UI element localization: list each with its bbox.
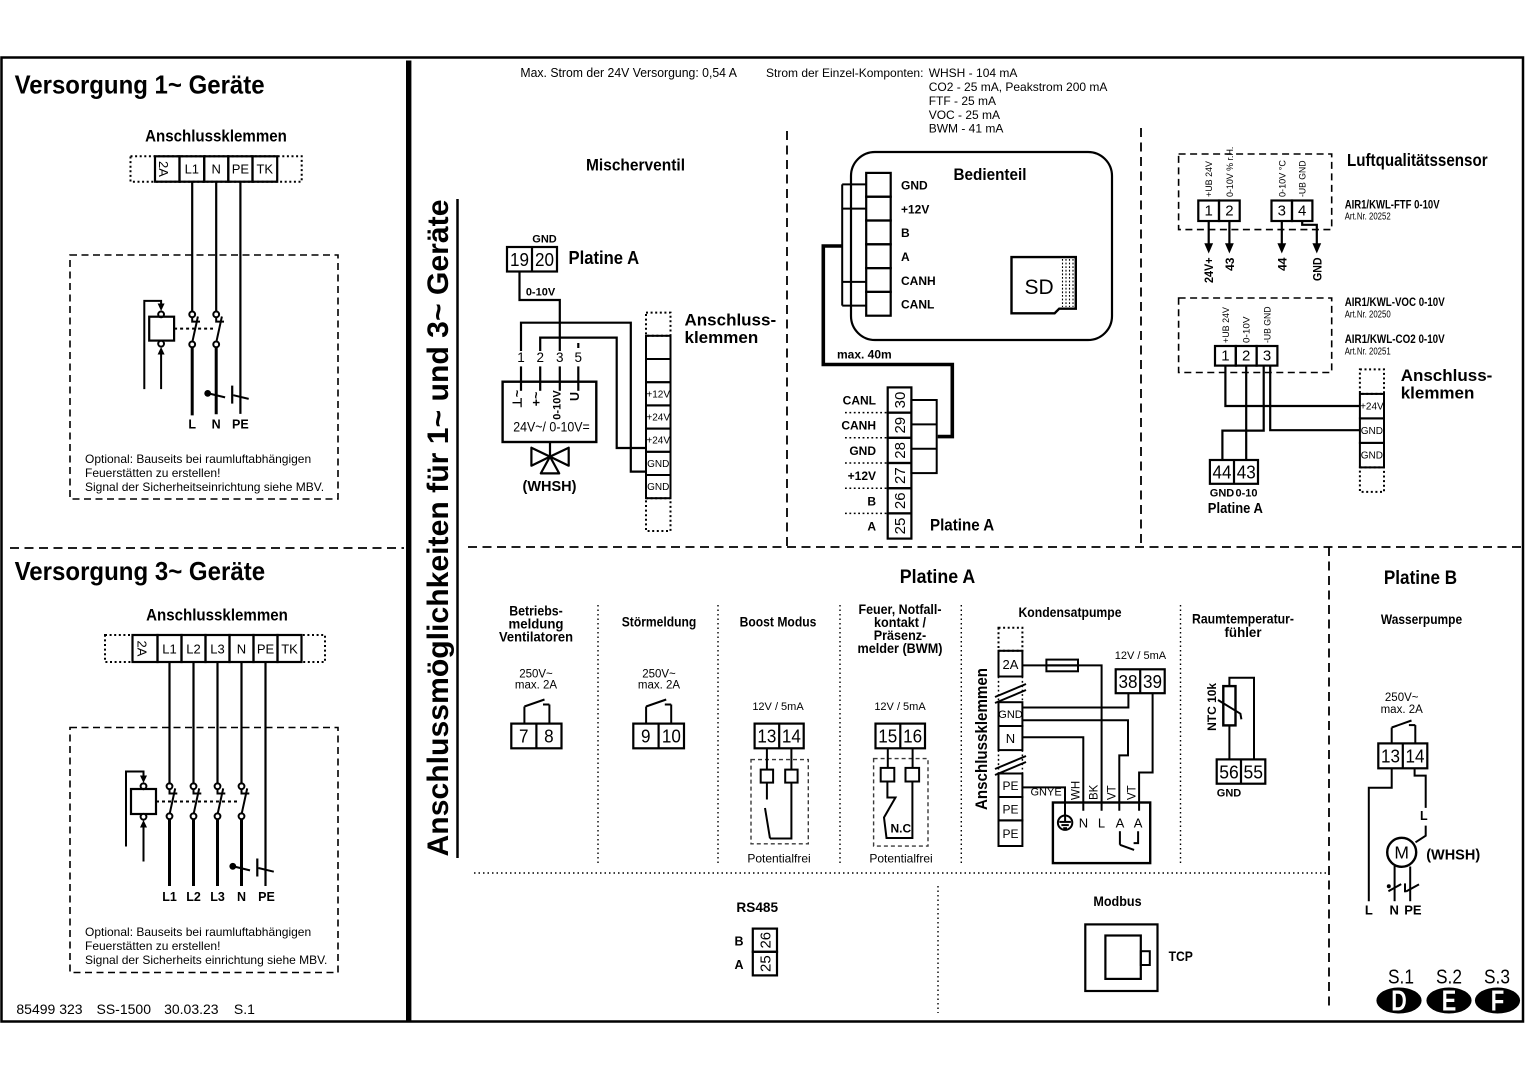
svg-text:L1: L1 — [162, 890, 177, 904]
terminal block 19/20 — [507, 247, 557, 272]
BWM dashed box — [874, 759, 928, 847]
coil bottom wire — [143, 827, 145, 862]
svg-text:A: A — [867, 520, 876, 534]
svg-text:30.03.23: 30.03.23 — [164, 1001, 219, 1017]
cell 2A — [999, 651, 1023, 677]
contactor coil — [131, 789, 156, 814]
cell +12V — [646, 382, 671, 405]
SD contact hatch — [1063, 259, 1074, 307]
svg-text:+UB 24V: +UB 24V — [1221, 306, 1232, 343]
terminals 26 25 — [753, 929, 777, 952]
svg-text:GND: GND — [998, 709, 1023, 721]
wire 38 to GND — [1022, 693, 1128, 707]
svg-text:PE: PE — [258, 890, 275, 904]
svg-text:2A: 2A — [135, 641, 150, 657]
svg-text:Luftqualitätssensor: Luftqualitätssensor — [1347, 150, 1488, 170]
rotated main title — [422, 199, 458, 858]
svg-text:GND: GND — [1210, 488, 1235, 500]
svg-text:L2: L2 — [186, 890, 201, 904]
svg-text:250V~: 250V~ — [1385, 692, 1419, 704]
VOC/CO2 dashed box — [1179, 298, 1332, 373]
dotted sides w break — [998, 750, 1000, 773]
svg-text:GND: GND — [849, 444, 876, 458]
svg-text:U: U — [568, 392, 582, 401]
switch contact L1 — [189, 312, 200, 348]
svg-text:Potentialfrei: Potentialfrei — [869, 852, 932, 866]
svg-text:Max. Strom der 24V Versorgung:: Max. Strom der 24V Versorgung: 0,54 A — [520, 66, 737, 80]
clamp bar PE — [231, 386, 233, 404]
svg-text:Bedienteil: Bedienteil — [954, 166, 1027, 184]
arrow wire 3 — [1281, 221, 1283, 245]
svg-text:55: 55 — [1244, 762, 1264, 783]
svg-text:9: 9 — [641, 726, 651, 747]
coil top terminal circle — [141, 783, 147, 789]
svg-text:max. 2A: max. 2A — [1381, 704, 1424, 716]
module tab — [1141, 951, 1150, 965]
svg-text:CANL: CANL — [843, 394, 876, 408]
clamp slash N — [210, 394, 226, 398]
wires down — [168, 662, 170, 783]
terminal strip cells — [133, 635, 158, 662]
svg-text:(WHSH): (WHSH) — [523, 479, 577, 495]
svg-text:WH: WH — [1071, 781, 1083, 800]
earth terminal — [1058, 816, 1072, 830]
svg-text:Art.Nr. 20251: Art.Nr. 20251 — [1345, 347, 1391, 358]
svg-text:10: 10 — [662, 726, 681, 747]
svg-text:16: 16 — [903, 726, 922, 747]
svg-text:25: 25 — [892, 518, 909, 535]
svg-text:B: B — [901, 226, 910, 240]
arrow wire 4 with jog — [1302, 221, 1317, 245]
mechanical link dotted — [174, 328, 213, 330]
svg-text:S.1: S.1 — [234, 1001, 255, 1017]
svg-text:N: N — [1079, 816, 1088, 831]
svg-text:Platine B: Platine B — [1384, 568, 1457, 589]
terminals 13 14 — [755, 724, 804, 749]
svg-text:-UB GND: -UB GND — [1263, 306, 1274, 343]
fuse wire 2A to L — [1022, 665, 1101, 810]
svg-text:PE: PE — [1002, 803, 1018, 817]
svg-text:GND: GND — [901, 179, 928, 193]
svg-text:0-10V: 0-10V — [551, 390, 563, 420]
VOC terminals 1 2 3 — [1215, 346, 1236, 366]
valve actuator box — [503, 382, 597, 442]
coil bottom wire — [160, 354, 162, 390]
wire into motor — [1416, 826, 1426, 843]
svg-text:GND: GND — [647, 459, 669, 470]
svg-text:27: 27 — [892, 467, 909, 484]
svg-text:Anschlussmöglichkeiten für 1~: Anschlussmöglichkeiten für 1~ und 3~ Ger… — [422, 200, 455, 857]
svg-text:2A: 2A — [1003, 657, 1019, 672]
dashed separator vertical 2 — [1140, 128, 1142, 547]
dashed separator horizontal right — [468, 546, 1522, 548]
wire 2 to 43 — [1245, 366, 1247, 460]
relay contact 7/8 — [523, 707, 525, 724]
svg-text:24V~/ 0-10V=: 24V~/ 0-10V= — [513, 420, 590, 435]
svg-text:0-10V: 0-10V — [1242, 316, 1253, 343]
svg-text:L: L — [1420, 809, 1428, 823]
svg-text:GNYE: GNYE — [1031, 787, 1062, 799]
svg-text:E: E — [1442, 986, 1457, 1018]
svg-text:N: N — [1006, 731, 1015, 746]
dotted top cell — [646, 313, 671, 336]
blank cells — [646, 336, 671, 359]
svg-text:Boost Modus: Boost Modus — [740, 613, 817, 629]
svg-text:1: 1 — [517, 350, 525, 365]
float switch — [1119, 831, 1121, 845]
svg-text:0-10V % r.H.: 0-10V % r.H. — [1225, 147, 1236, 197]
wire 1 to +24V — [1225, 366, 1360, 406]
svg-text:28: 28 — [892, 442, 909, 459]
svg-text:max. 40m: max. 40m — [837, 348, 892, 362]
dotted separator RS485/Modbus — [937, 886, 939, 1013]
wire 3a to 44 — [1222, 366, 1263, 460]
svg-text:Signal der Sicherheits einrich: Signal der Sicherheits einrichtung siehe… — [85, 953, 327, 967]
svg-text:+UB 24V: +UB 24V — [1204, 160, 1215, 197]
valve symbol bottom triangle — [541, 457, 559, 474]
wire N down — [215, 182, 217, 312]
svg-text:A: A — [1134, 816, 1143, 831]
NTC wires — [1229, 678, 1254, 760]
svg-text:Platine A: Platine A — [569, 248, 640, 268]
FTF terminals 3 4 — [1272, 201, 1293, 222]
clamp slash PE — [233, 395, 248, 399]
optional dashed box — [70, 255, 338, 499]
svg-text:GND: GND — [532, 234, 557, 246]
PE cells — [999, 774, 1023, 798]
coil bottom terminal circle — [141, 814, 147, 820]
svg-text:GND: GND — [1217, 788, 1242, 800]
svg-text:2: 2 — [1242, 348, 1250, 365]
dotted leaders — [845, 412, 888, 414]
svg-text:CO2 - 25 mA, Peakstrom 200 mA: CO2 - 25 mA, Peakstrom 200 mA — [929, 80, 1108, 94]
svg-text:8: 8 — [544, 726, 554, 747]
svg-text:D: D — [1391, 986, 1407, 1018]
wires to pins — [887, 748, 889, 768]
wires to pins — [766, 748, 768, 769]
svg-text:3: 3 — [556, 350, 564, 365]
svg-text:NTC 10k: NTC 10k — [1205, 683, 1219, 731]
wire PE to pump earth — [1022, 787, 1065, 815]
coil top terminal circle — [158, 312, 164, 318]
thick section divider bar — [406, 61, 411, 1022]
svg-text:30: 30 — [892, 392, 909, 409]
svg-text:max. 2A: max. 2A — [638, 680, 681, 692]
svg-text:Platine A: Platine A — [900, 566, 975, 588]
svg-text:N: N — [1390, 903, 1399, 918]
terminals 13 14 — [1378, 743, 1427, 768]
svg-text:WHSH - 104 mA: WHSH - 104 mA — [929, 66, 1018, 80]
svg-text:0-10: 0-10 — [1235, 488, 1257, 500]
svg-text:TCP: TCP — [1169, 948, 1193, 964]
dotted top cell — [999, 628, 1023, 651]
svg-text:Anschlussklemmen: Anschlussklemmen — [146, 607, 288, 625]
title underline — [456, 199, 459, 858]
terminals 9 10 — [633, 724, 684, 749]
svg-text:5: 5 — [575, 350, 583, 365]
svg-text:VT: VT — [1107, 785, 1119, 800]
svg-text:klemmen: klemmen — [1401, 384, 1475, 403]
svg-text:56: 56 — [1219, 762, 1239, 783]
svg-text:15: 15 — [878, 726, 897, 747]
svg-text:+~: +~ — [530, 392, 544, 407]
svg-text:GND: GND — [647, 482, 669, 493]
svg-text:PE: PE — [1002, 779, 1018, 793]
junction dot on N — [229, 863, 236, 870]
pump box — [1053, 803, 1150, 864]
valve symbol left triangle — [531, 448, 550, 466]
svg-text:BWM - 41 mA: BWM - 41 mA — [929, 122, 1004, 136]
cell GND — [646, 452, 671, 475]
connector cells — [866, 173, 891, 197]
svg-text:Störmeldung: Störmeldung — [622, 613, 697, 629]
svg-text:2: 2 — [536, 350, 544, 365]
svg-text:38: 38 — [1119, 671, 1138, 692]
boost switch — [766, 783, 768, 800]
svg-text:Anschluss-: Anschluss- — [685, 311, 777, 330]
svg-text:CANH: CANH — [841, 419, 876, 433]
svg-text:CANL: CANL — [901, 298, 934, 312]
svg-text:2: 2 — [1225, 203, 1233, 220]
svg-text:44: 44 — [1275, 257, 1289, 271]
svg-text:+24V: +24V — [1360, 402, 1384, 413]
wire PE down — [239, 182, 241, 414]
FTF dashed box — [1179, 154, 1332, 230]
terminals 44 43 — [1210, 460, 1258, 484]
wire GND to pump A left — [1022, 720, 1128, 810]
svg-text:+24V: +24V — [646, 413, 670, 424]
svg-text:19: 19 — [510, 249, 529, 270]
cell +24V — [646, 405, 671, 428]
svg-text:GND: GND — [1361, 451, 1383, 462]
svg-text:Art.Nr. 20250: Art.Nr. 20250 — [1345, 310, 1391, 321]
svg-text:BK: BK — [1089, 784, 1101, 800]
coil bottom terminal circle — [158, 341, 164, 347]
NTC body — [1223, 686, 1235, 725]
svg-text:Signal der Sicherheitseinricht: Signal der Sicherheitseinrichtung siehe … — [85, 480, 324, 494]
svg-text:3: 3 — [1278, 203, 1286, 220]
module inner — [1105, 936, 1140, 979]
svg-text:Feuerstätten zu erstellen!: Feuerstätten zu erstellen! — [85, 939, 220, 953]
pin squares — [881, 768, 895, 782]
svg-text:Strom der Einzel-Komponten:: Strom der Einzel-Komponten: — [766, 66, 923, 80]
switch contacts L1 L2 L3 N — [167, 783, 178, 819]
svg-text:⊥~: ⊥~ — [511, 390, 525, 408]
svg-text:L1: L1 — [162, 642, 176, 657]
svg-text:Potentialfrei: Potentialfrei — [747, 852, 810, 866]
svg-text:B: B — [734, 935, 743, 949]
svg-text:3: 3 — [1263, 348, 1271, 365]
Platine A terminal column 30-25 — [888, 387, 912, 538]
wire N below switch — [215, 347, 218, 414]
svg-text:CANH: CANH — [901, 274, 936, 288]
cell +24V — [646, 429, 671, 452]
svg-text:L3: L3 — [210, 642, 224, 657]
svg-text:26: 26 — [757, 932, 774, 949]
clamp dot N — [1387, 884, 1391, 888]
FTF terminals 1 2 — [1198, 201, 1219, 222]
svg-text:TK: TK — [281, 642, 298, 657]
stub above 5 — [577, 343, 579, 348]
mechanical link dotted — [156, 801, 238, 803]
svg-text:L2: L2 — [186, 642, 200, 657]
svg-text:20: 20 — [535, 249, 554, 270]
cell GND — [646, 475, 671, 498]
dashed separator vertical 1 — [786, 131, 788, 547]
svg-text:13: 13 — [1381, 746, 1400, 767]
relay contact 9/10 — [645, 707, 647, 724]
svg-text:A: A — [734, 958, 743, 972]
oval E — [1426, 988, 1471, 1014]
svg-text:12V / 5mA: 12V / 5mA — [1115, 650, 1167, 662]
Anschlussklemmen column — [1360, 369, 1384, 492]
svg-text:-UB GND: -UB GND — [1298, 160, 1309, 197]
svg-text:Ventilatoren: Ventilatoren — [499, 629, 573, 645]
svg-text:+12V: +12V — [646, 389, 670, 400]
svg-text:Versorgung 1~ Geräte: Versorgung 1~ Geräte — [15, 70, 265, 100]
svg-text:Platine A: Platine A — [1208, 501, 1264, 517]
svg-text:A: A — [1116, 816, 1125, 831]
terminals 38 39 — [1116, 669, 1165, 693]
svg-text:Anschlussklemmen: Anschlussklemmen — [973, 668, 991, 810]
svg-text:39: 39 — [1143, 671, 1162, 692]
module outer — [1085, 924, 1157, 991]
svg-text:max. 2A: max. 2A — [515, 680, 558, 692]
svg-text:PE: PE — [1404, 903, 1422, 918]
svg-text:14: 14 — [1406, 746, 1425, 767]
svg-text:AIR1/KWL-FTF 0-10V: AIR1/KWL-FTF 0-10V — [1345, 199, 1440, 211]
SD card icon — [1012, 257, 1076, 313]
svg-text:Versorgung 3~ Geräte: Versorgung 3~ Geräte — [15, 556, 266, 586]
svg-text:+12V: +12V — [848, 469, 876, 483]
svg-text:TK: TK — [256, 162, 273, 177]
svg-text:L: L — [1365, 903, 1373, 918]
svg-text:0-10V °C: 0-10V °C — [1277, 160, 1288, 197]
wire 39 to pump A right — [1139, 693, 1153, 811]
svg-text:0-10V: 0-10V — [526, 287, 556, 299]
wire L1 down — [191, 182, 193, 312]
relay contact — [1391, 728, 1393, 744]
clamp slash N — [235, 867, 251, 871]
arrow down to coil — [158, 304, 165, 312]
fuse body — [1046, 660, 1078, 672]
oval F — [1475, 988, 1520, 1014]
motor circle — [1387, 838, 1416, 867]
arrow up to coil — [140, 820, 147, 828]
arrow wire 1 — [1208, 221, 1210, 245]
svg-text:N: N — [212, 418, 221, 432]
svg-text:Optional: Bauseits bei raumluf: Optional: Bauseits bei raumluftabhängige… — [85, 925, 311, 939]
motor bottom wires — [1394, 866, 1396, 901]
svg-text:klemmen: klemmen — [685, 328, 759, 347]
svg-text:Mischerventil: Mischerventil — [586, 156, 685, 175]
wire 13 to L — [1369, 768, 1392, 901]
Anschlussklemmen column — [646, 313, 671, 531]
dotted horizontal separator bottom band — [474, 872, 1329, 874]
dashed separator left column — [10, 547, 404, 549]
svg-text:L: L — [188, 418, 196, 432]
svg-text:RS485: RS485 — [736, 899, 778, 915]
svg-text:Optional: Bauseits bei raumluf: Optional: Bauseits bei raumluftabhängige… — [85, 452, 311, 466]
svg-text:14: 14 — [782, 726, 801, 747]
wires below switches — [168, 819, 171, 886]
svg-text:43: 43 — [1223, 257, 1237, 271]
bracket bus — [841, 184, 843, 305]
terminal column — [995, 628, 1026, 846]
svg-text:(WHSH): (WHSH) — [1426, 848, 1480, 864]
dotted column separators bottom band — [597, 605, 599, 863]
svg-text:Wasserpumpe: Wasserpumpe — [1381, 611, 1462, 627]
boost dashed box — [751, 760, 808, 844]
arrow up to coil — [158, 347, 165, 355]
svg-text:Modbus: Modbus — [1093, 893, 1141, 909]
svg-text:fühler: fühler — [1225, 624, 1263, 640]
wire N to pump — [1022, 737, 1083, 810]
svg-text:N: N — [237, 890, 246, 904]
dotted bottom cell — [646, 498, 671, 531]
svg-text:GND: GND — [1310, 257, 1324, 281]
contactor coil bracket wire — [144, 301, 161, 389]
dashed separator vertical 3 — [1328, 547, 1330, 1010]
svg-text:44: 44 — [1213, 462, 1232, 483]
svg-text:25: 25 — [757, 955, 774, 972]
svg-text:AIR1/KWL-CO2 0-10V: AIR1/KWL-CO2 0-10V — [1345, 334, 1445, 346]
svg-text:L: L — [1098, 816, 1105, 831]
terminal strip cells — [155, 156, 180, 181]
contactor coil bracket wire — [126, 772, 144, 847]
terminals 56 55 — [1217, 759, 1266, 783]
svg-text:2A: 2A — [156, 161, 171, 177]
NTC diagonal — [1218, 700, 1241, 719]
svg-text:M: M — [1394, 843, 1409, 863]
top annotation — [520, 66, 1107, 136]
svg-text:melder (BWM): melder (BWM) — [858, 640, 943, 656]
valve terminal stubs — [520, 366, 522, 390]
svg-text:29: 29 — [892, 417, 909, 434]
right connector bracket — [911, 400, 936, 473]
pin squares — [761, 770, 773, 783]
svg-text:PE: PE — [232, 162, 250, 177]
wire 3b to GND — [1270, 366, 1360, 431]
terminal strip dotted outline — [131, 156, 302, 181]
terminals 7 8 — [511, 724, 561, 749]
svg-text:AIR1/KWL-VOC 0-10V: AIR1/KWL-VOC 0-10V — [1345, 297, 1445, 309]
svg-text:VT: VT — [1126, 785, 1138, 800]
clamp bar PE — [1404, 883, 1406, 892]
svg-text:N: N — [237, 642, 246, 657]
arrow wire 2 — [1228, 221, 1230, 245]
svg-text:Kondensatpumpe: Kondensatpumpe — [1019, 604, 1122, 620]
wire terminal2 to +24V — [540, 338, 646, 448]
svg-text:SS-1500: SS-1500 — [97, 1001, 152, 1017]
svg-text:VOC - 25 mA: VOC - 25 mA — [929, 108, 1000, 122]
svg-text:85499 323: 85499 323 — [16, 1001, 82, 1017]
svg-text:GND: GND — [1361, 426, 1383, 437]
svg-text:43: 43 — [1237, 462, 1256, 483]
svg-text:PE: PE — [1002, 827, 1018, 841]
cell N — [999, 726, 1023, 750]
svg-text:+24V: +24V — [646, 436, 670, 447]
svg-text:PE: PE — [257, 642, 275, 657]
clamp bar PE — [256, 859, 258, 877]
wire 0-10V from 19 to valve 3 — [520, 272, 560, 352]
svg-text:Anschlussklemmen: Anschlussklemmen — [145, 128, 287, 146]
thick CAN cable — [823, 246, 952, 437]
svg-text:12V / 5mA: 12V / 5mA — [752, 701, 804, 713]
svg-text:7: 7 — [519, 726, 529, 747]
svg-text:L3: L3 — [210, 890, 225, 904]
switch contact N — [213, 312, 224, 348]
